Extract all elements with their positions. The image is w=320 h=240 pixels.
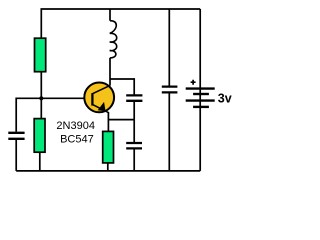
node base junction dot	[39, 96, 43, 100]
inductor L1 coil	[110, 21, 117, 58]
transistor Q1 collector line	[92, 85, 110, 94]
wire emitter tap to C3 branch	[108, 119, 134, 121]
wire C1 bottom to ground rail	[15, 140, 17, 171]
svg-text:2N3904: 2N3904	[56, 120, 95, 132]
transistor Q1 emitter arrowhead	[98, 103, 105, 111]
battery B1 long plate 2	[186, 99, 215, 101]
capacitor C1 plates	[8, 133, 24, 139]
wire R2 bottom to ground rail	[39, 152, 41, 171]
svg-text:3v: 3v	[218, 92, 232, 106]
transistor Q1 base bar	[91, 93, 93, 105]
capacitor C4 plates	[162, 87, 178, 93]
capacitor C2 plates	[126, 95, 142, 100]
wire R3 bottom to ground rail	[107, 163, 109, 171]
wire ground bottom rail	[16, 170, 200, 172]
wire tap down to C3	[133, 120, 135, 142]
battery B1 short plate 1	[193, 93, 209, 95]
svg-text:BC547: BC547	[60, 134, 94, 146]
wire R2 branch from junction	[40, 98, 42, 118]
wire battery vertical	[199, 9, 201, 171]
wire C4 bottom to ground rail	[168, 93, 170, 170]
wire emitter vertical	[107, 112, 109, 131]
capacitor C3 plates	[126, 143, 142, 148]
wire coil bottom to collector	[109, 58, 111, 85]
wire C3 bottom to ground rail	[133, 150, 135, 171]
wire R1 bottom to base junction	[40, 72, 42, 99]
transistor Q1 circle	[84, 83, 114, 113]
resistor R2	[34, 119, 45, 153]
battery B1 long plate 1	[186, 87, 215, 89]
battery B1 plus sign	[191, 80, 196, 85]
battery B1 short plate 2	[193, 106, 209, 108]
wire top rail	[41, 9, 200, 39]
wire C4 branch from top rail	[168, 9, 170, 86]
resistor R3	[103, 131, 114, 163]
wire base rail from C1 to transistor base	[16, 98, 92, 132]
resistor R1	[35, 38, 46, 71]
transistor Q1 emitter line	[92, 104, 108, 112]
wire collector branch to C2	[110, 79, 134, 95]
wire collector feed from top rail	[109, 9, 111, 21]
wire C2 bottom to emitter tap	[133, 102, 135, 120]
